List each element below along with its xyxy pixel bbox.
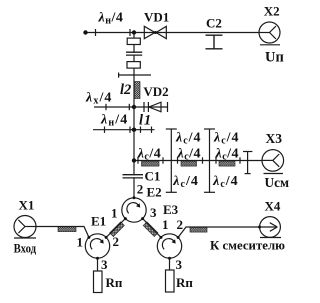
wire top horizontal (node to X2) [86,32,260,34]
svg-text:Uсм: Uсм [265,176,290,191]
svg-text:3: 3 [176,257,183,272]
svg-text:Вход: Вход [14,242,37,256]
connector X2 [259,22,280,43]
resistor Rp left [94,271,103,293]
wire E3 to X4 [178,227,260,237]
node junction row2 [132,128,136,132]
svg-text:λх/4: λх/4 [85,91,113,107]
svg-text:Uп: Uп [265,49,284,65]
wire E2 to E3 (diagonal) [143,219,161,238]
resistor Rp right [166,270,175,292]
filter box 1 [127,38,140,44]
circulator E2 [122,198,146,222]
svg-text:E2: E2 [147,184,162,199]
microstrip bus section 1 (hatched) [142,161,160,166]
tick bus [215,157,217,163]
wire E3 to Rp [169,258,171,270]
wire lambda-x/4 stub [94,106,134,108]
svg-text:2: 2 [113,234,120,249]
wire E2 to E1 (diagonal) [106,219,125,238]
svg-text:Rп: Rп [106,275,123,290]
diode VD1 [144,26,155,38]
svg-text:E1: E1 [91,213,106,228]
svg-text:К смесителю: К смесителю [210,239,285,253]
stub bar with left tick [119,74,151,76]
svg-text:λс/4: λс/4 [213,130,240,146]
tick bus [202,157,204,163]
svg-text:X2: X2 [264,4,280,19]
microstrip hatched segment E2-E1 [110,222,125,237]
svg-text:λн/4: λн/4 [98,11,124,27]
wire X1 to E1 [36,227,89,238]
circulator E1 [85,234,109,258]
svg-text:3: 3 [101,257,108,272]
wire lambda-n/4 stub row2 [93,129,155,131]
svg-text:3: 3 [150,205,157,220]
node left terminal dot [83,30,87,34]
svg-text:2: 2 [177,217,184,232]
svg-text:λс/4: λс/4 [177,146,202,162]
wire bias bus horizontal [134,160,262,162]
svg-text:E3: E3 [163,202,179,217]
stub vertical 1 [170,129,172,192]
svg-text:2: 2 [137,182,144,197]
svg-text:X1: X1 [19,198,35,213]
capacitor C1 [123,175,143,177]
svg-text:λс/4: λс/4 [175,130,202,146]
wire vertical chain [133,33,135,198]
circulator E3 [157,234,181,258]
microstrip bus section 3 (hatched) [219,161,235,166]
svg-text:C1: C1 [145,169,161,184]
diode VD2 [134,106,168,108]
svg-text:λн/4: λн/4 [100,112,128,128]
svg-text:VD1: VD1 [144,10,169,25]
tick bus [177,157,179,163]
svg-text:X4: X4 [265,199,281,214]
tick on top wire [129,29,131,36]
stub vertical 2 [209,129,211,192]
svg-text:λс/4: λс/4 [137,146,162,162]
svg-text:l2: l2 [120,82,131,98]
svg-text:λс/4: λс/4 [215,146,240,162]
microstrip hatched segment X4 wire [190,227,207,232]
microstrip bus section 2 (hatched) [181,161,197,166]
svg-text:C2: C2 [206,16,222,31]
tick bus [162,157,164,163]
connector X1 [14,216,36,238]
microstrip hatched segment X1 wire [58,227,76,232]
connector X3 [262,150,284,172]
svg-text:λс/4: λс/4 [212,174,239,190]
capacitor C2 [206,34,223,36]
node junction VD2 row [132,105,136,109]
node junction top (top wire / vertical chain) [132,30,136,34]
svg-text:1: 1 [111,206,118,221]
connector X4 [260,217,281,238]
microstrip line l2 (hatched) [134,82,140,99]
svg-text:Rп: Rп [176,275,193,290]
svg-text:1: 1 [162,217,169,232]
svg-text:X3: X3 [266,131,283,146]
microstrip hatched segment E2-E3 [143,222,158,237]
svg-text:l1: l1 [139,113,152,129]
tick bus [239,157,241,163]
svg-text:λс/4: λс/4 [172,174,199,190]
wire E1 to Rp [97,258,99,271]
svg-text:VD2: VD2 [143,84,168,99]
tick bus [137,157,139,163]
filter box 2 [127,62,140,69]
capacitor near X3 (tee) [247,152,249,174]
capacitor in chain [127,53,143,55]
node junction bus left [132,158,136,162]
tick on top wire [95,29,97,36]
svg-text:1: 1 [77,235,84,250]
